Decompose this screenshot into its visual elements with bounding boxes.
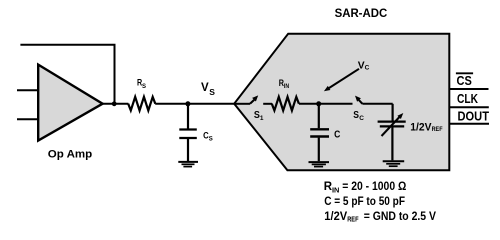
- svg-text:REF: REF: [347, 217, 359, 224]
- svg-text:C: C: [334, 128, 341, 140]
- svg-text:IN: IN: [284, 84, 289, 90]
- svg-text:IN: IN: [332, 185, 339, 194]
- svg-text:Op Amp: Op Amp: [48, 149, 92, 161]
- svg-text:= 20 - 1000 Ω: = 20 - 1000 Ω: [342, 181, 406, 193]
- svg-text:1/2V: 1/2V: [410, 121, 432, 133]
- svg-text:1/2V: 1/2V: [324, 211, 347, 223]
- svg-text:S: S: [209, 137, 213, 143]
- svg-text:S: S: [142, 84, 146, 90]
- svg-text:CLK: CLK: [457, 91, 479, 106]
- svg-text:C = 5 pF to 50 pF: C = 5 pF to 50 pF: [324, 196, 405, 208]
- svg-text:C: C: [359, 115, 364, 122]
- svg-text:SAR-ADC: SAR-ADC: [335, 7, 388, 20]
- svg-text:V: V: [201, 82, 209, 94]
- svg-text:REF: REF: [432, 126, 443, 133]
- svg-text:1: 1: [260, 115, 264, 122]
- svg-text:CS: CS: [457, 73, 472, 88]
- svg-text:= GND to 2.5 V: = GND to 2.5 V: [364, 211, 437, 223]
- svg-text:DOUT: DOUT: [458, 109, 490, 124]
- svg-text:C: C: [365, 65, 370, 72]
- svg-text:S: S: [209, 87, 215, 97]
